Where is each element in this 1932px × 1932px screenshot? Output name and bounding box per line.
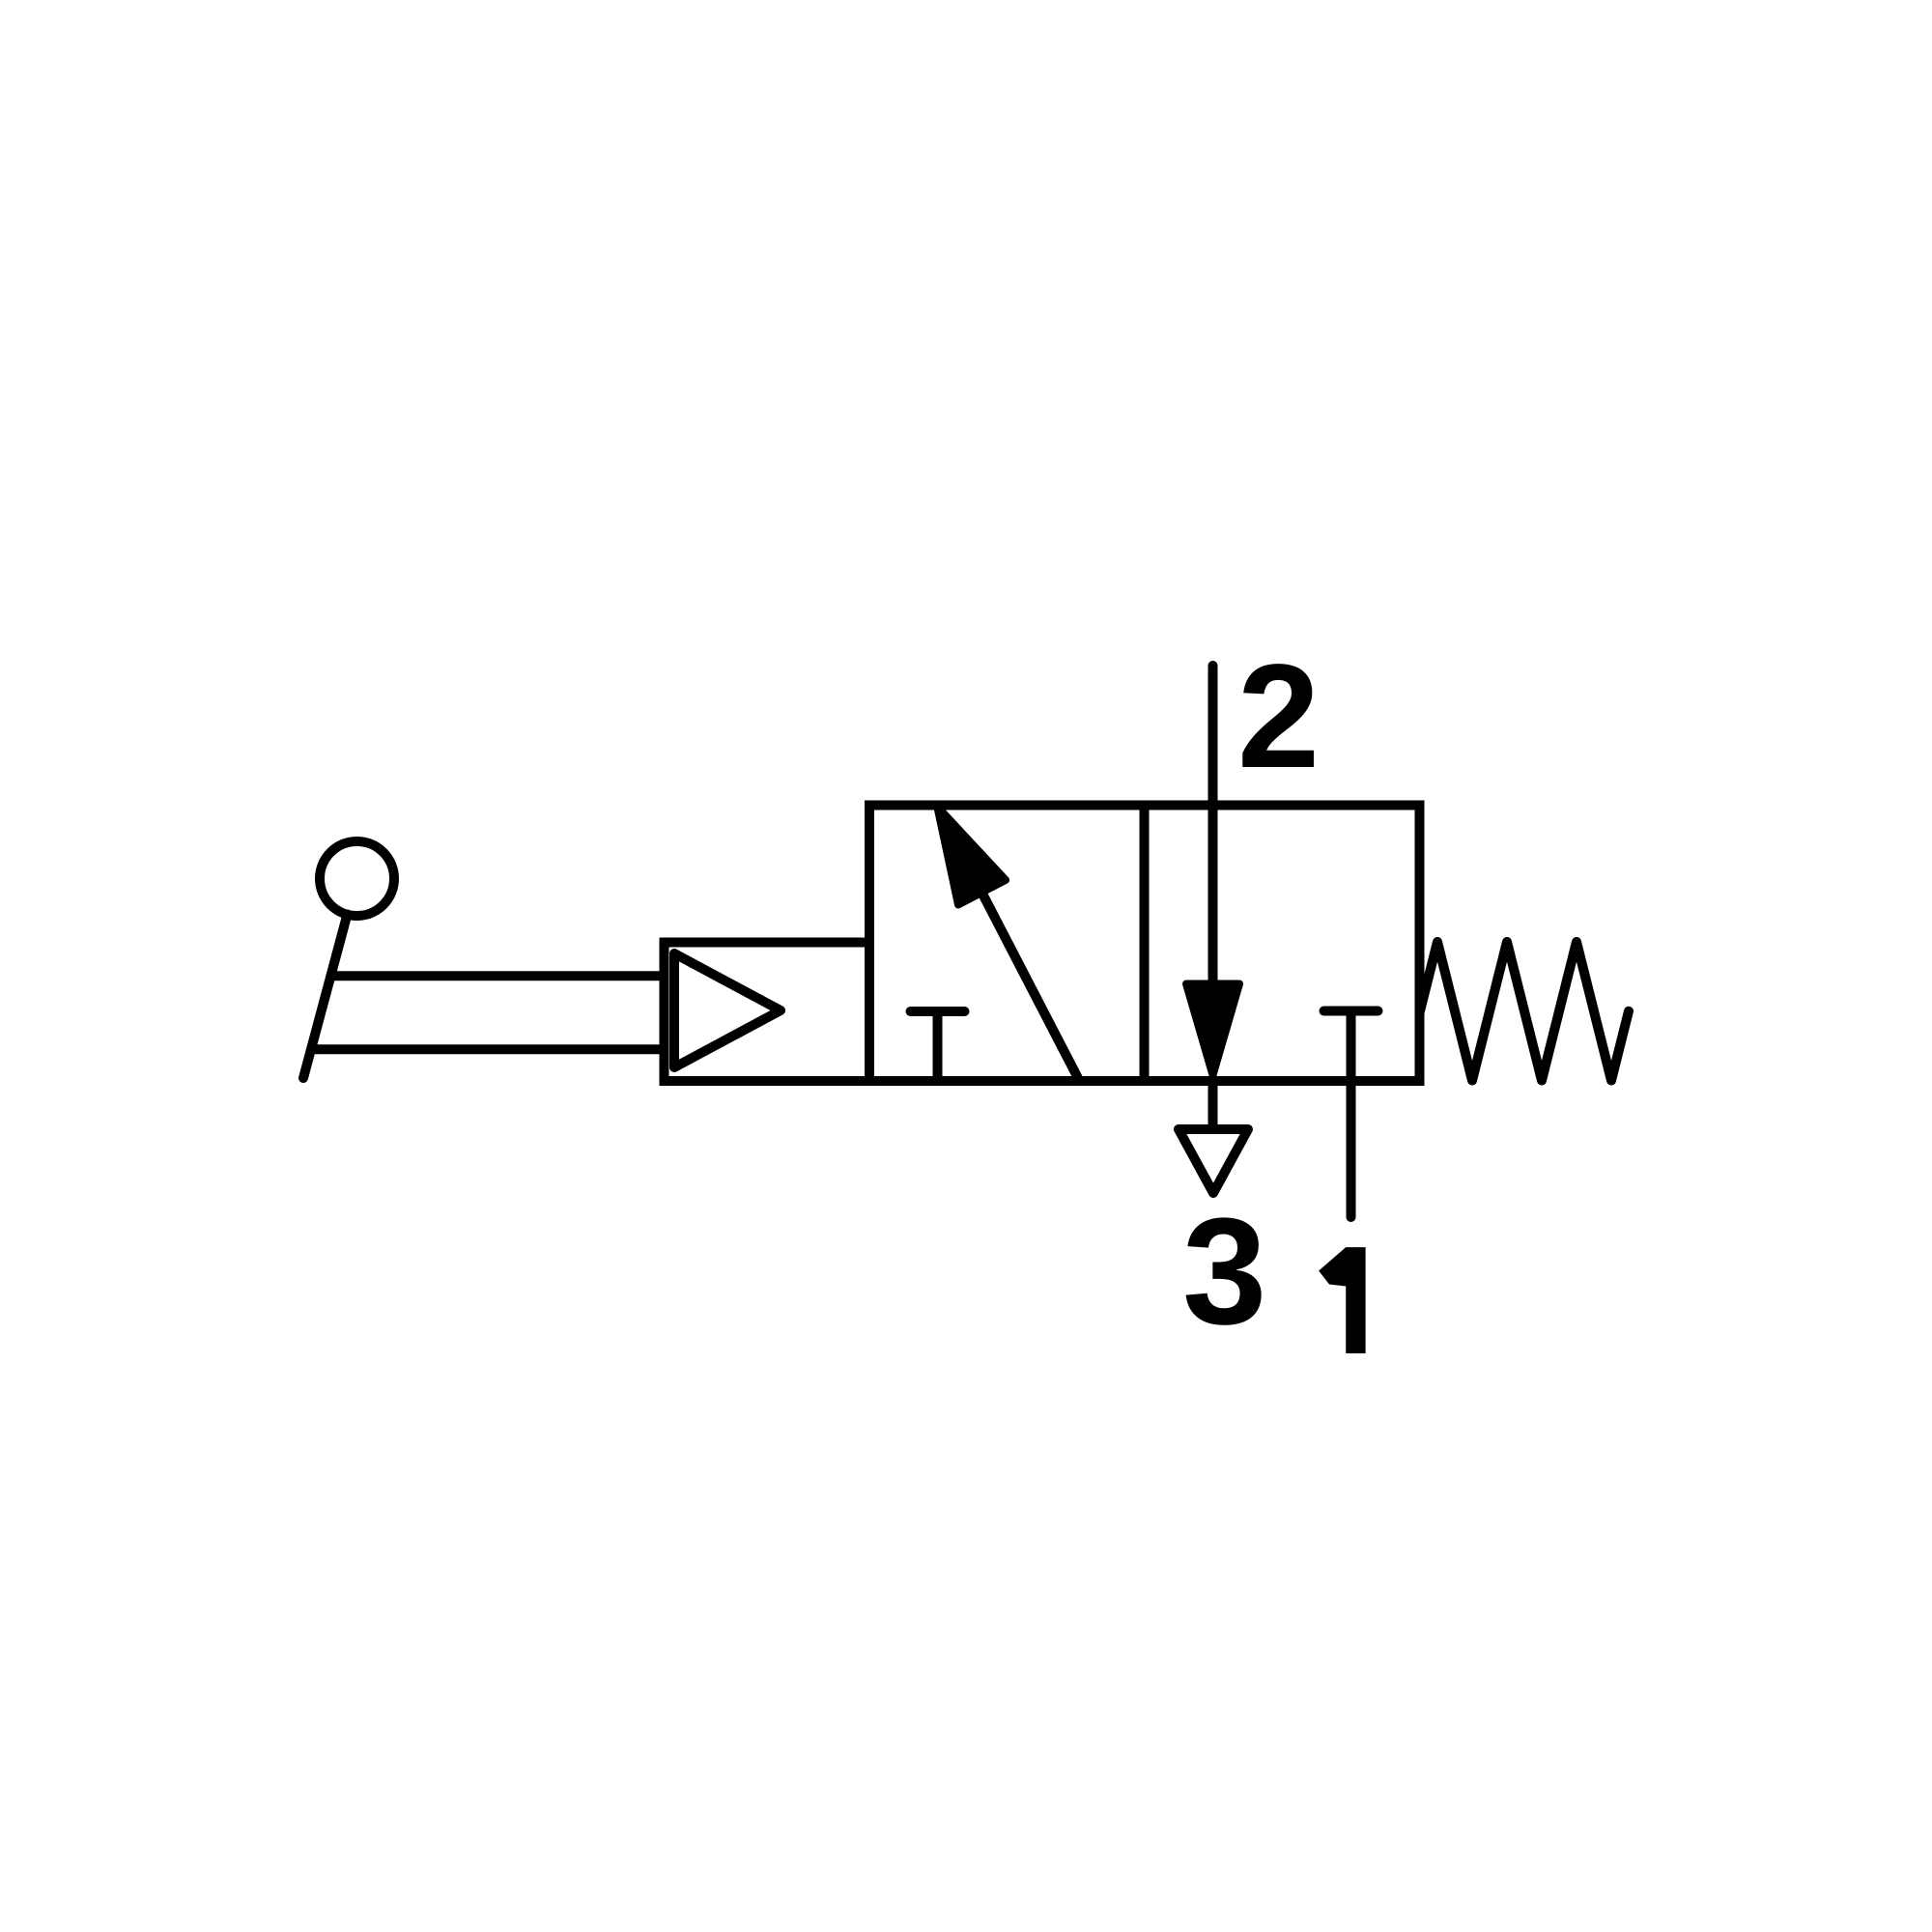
svg-text:3: 3 [1182,1187,1266,1356]
svg-text:2: 2 [1237,634,1320,799]
